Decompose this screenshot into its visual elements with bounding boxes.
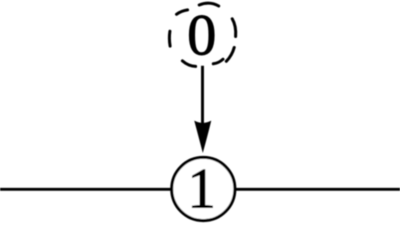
arrowhead	[195, 121, 211, 152]
wire: horizontal line across page	[0, 188, 400, 191]
svg-text:0: 0	[187, 3, 216, 68]
node 0 (dashed circle)	[169, 3, 235, 66]
node 1 (solid circle)	[172, 157, 235, 220]
wire: arrow shaft from node 0 to node 1	[201, 66, 204, 130]
svg-text:1: 1	[187, 157, 216, 220]
